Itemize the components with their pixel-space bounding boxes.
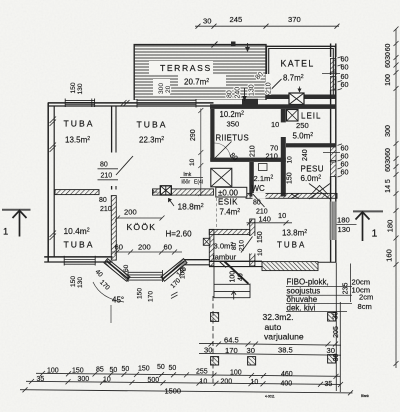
svg-text:50: 50: [157, 364, 165, 371]
svg-text:80: 80: [100, 162, 108, 169]
svg-text:TUBA: TUBA: [64, 119, 95, 129]
svg-text:210: 210: [266, 152, 278, 161]
svg-text:35: 35: [325, 381, 333, 388]
svg-text:TUBA: TUBA: [137, 120, 168, 130]
svg-text:30: 30: [327, 346, 335, 355]
svg-text:PESU: PESU: [301, 165, 324, 174]
svg-text:tambur: tambur: [213, 253, 237, 262]
svg-text:1: 1: [372, 228, 378, 240]
svg-text:50: 50: [110, 367, 118, 374]
svg-text:240: 240: [302, 149, 309, 161]
svg-text:14 5: 14 5: [385, 179, 392, 193]
svg-text:150: 150: [287, 172, 294, 184]
svg-text:200: 200: [138, 243, 151, 252]
svg-text:160: 160: [385, 249, 394, 262]
svg-text:RIIETUS: RIIETUS: [216, 134, 250, 143]
svg-text:130: 130: [338, 225, 351, 234]
svg-text:170: 170: [148, 291, 155, 302]
svg-text:35: 35: [37, 376, 45, 383]
svg-text:2cm: 2cm: [359, 293, 373, 302]
svg-text:130: 130: [249, 84, 256, 96]
svg-text:80: 80: [253, 200, 261, 207]
svg-text:60: 60: [341, 80, 349, 89]
svg-text:10.4m2: 10.4m2: [64, 226, 90, 236]
svg-text:5.0m2: 5.0m2: [293, 132, 314, 141]
svg-text:100: 100: [47, 368, 59, 375]
svg-text:210: 210: [266, 82, 273, 94]
svg-text:60: 60: [341, 63, 349, 72]
svg-text:13.8m2: 13.8m2: [282, 229, 307, 238]
svg-text:245: 245: [230, 15, 243, 24]
svg-text:60: 60: [385, 44, 392, 52]
svg-text:210: 210: [239, 240, 246, 251]
svg-text:300: 300: [385, 125, 392, 137]
svg-text:30: 30: [333, 312, 340, 320]
svg-text:E(4l: E(4l: [194, 180, 203, 186]
svg-text:Blank: Blank: [361, 394, 369, 398]
svg-text:varjualune: varjualune: [264, 332, 304, 342]
svg-text:60: 60: [385, 148, 392, 156]
svg-text:210: 210: [250, 145, 257, 157]
svg-text:150: 150: [72, 368, 84, 375]
svg-text:60: 60: [385, 60, 392, 68]
svg-text:60: 60: [123, 264, 130, 272]
svg-text:8cm: 8cm: [358, 302, 372, 311]
svg-text:KÖÖK: KÖÖK: [127, 222, 157, 232]
svg-text:290: 290: [190, 129, 197, 141]
svg-text:150: 150: [257, 231, 264, 243]
svg-text:10: 10: [189, 158, 196, 166]
svg-text:300: 300: [78, 376, 90, 383]
svg-text:H=2.60: H=2.60: [166, 230, 193, 239]
svg-text:150: 150: [70, 82, 77, 93]
svg-text:210: 210: [101, 173, 113, 180]
svg-text:±0.00: ±0.00: [218, 188, 239, 197]
svg-text:80: 80: [99, 197, 107, 204]
svg-text:20: 20: [165, 85, 172, 93]
svg-text:38.5: 38.5: [278, 346, 293, 355]
svg-text:235: 235: [343, 283, 350, 295]
svg-text:30: 30: [385, 52, 392, 60]
svg-text:8.7m2: 8.7m2: [283, 74, 304, 83]
svg-text:50: 50: [169, 365, 177, 372]
svg-text:1: 1: [3, 227, 8, 238]
svg-text:64.5: 64.5: [224, 336, 239, 345]
svg-text:130: 130: [77, 277, 84, 288]
svg-text:370: 370: [288, 15, 301, 24]
svg-text:30: 30: [247, 346, 255, 355]
svg-text:10: 10: [257, 248, 264, 256]
svg-text:32.3m2.: 32.3m2.: [263, 312, 294, 322]
svg-text:150: 150: [137, 288, 144, 299]
svg-text:205: 205: [333, 326, 340, 338]
svg-text:1500: 1500: [165, 386, 181, 395]
svg-text:60: 60: [341, 168, 349, 177]
svg-text:300: 300: [158, 83, 165, 94]
svg-text:10.2m2: 10.2m2: [220, 110, 245, 119]
svg-text:150: 150: [70, 276, 77, 287]
svg-text:auto: auto: [265, 322, 282, 332]
svg-text:210: 210: [100, 206, 112, 213]
svg-text:30: 30: [385, 156, 392, 164]
svg-text:460: 460: [281, 371, 293, 378]
svg-text:lõõr: lõõr: [182, 180, 191, 186]
svg-text:TUBA: TUBA: [64, 240, 95, 250]
svg-text:180: 180: [337, 216, 350, 225]
svg-text:85: 85: [96, 367, 104, 374]
svg-text:7.4m2: 7.4m2: [220, 208, 241, 217]
svg-text:130: 130: [77, 83, 84, 94]
svg-text:60: 60: [385, 164, 392, 172]
svg-text:WC: WC: [252, 184, 266, 193]
svg-text:80: 80: [231, 242, 238, 250]
svg-text:170: 170: [225, 346, 238, 355]
svg-text:250: 250: [296, 121, 309, 130]
svg-text:4-0011: 4-0011: [265, 395, 275, 399]
svg-text:30: 30: [204, 346, 212, 355]
svg-text:10: 10: [271, 120, 279, 129]
svg-text:20.7m2: 20.7m2: [184, 78, 209, 87]
svg-text:13.5m2: 13.5m2: [65, 136, 90, 145]
svg-text:18.8m2: 18.8m2: [178, 202, 204, 212]
svg-text:200: 200: [124, 208, 137, 217]
svg-text:1=: 1=: [152, 189, 158, 195]
svg-text:30: 30: [333, 354, 340, 362]
svg-text:LEIL: LEIL: [301, 112, 321, 121]
svg-text:100: 100: [230, 271, 237, 283]
svg-text:140: 140: [259, 215, 271, 224]
svg-text:ESIK: ESIK: [218, 198, 238, 207]
svg-text:30: 30: [203, 17, 211, 26]
svg-text:500: 500: [148, 377, 160, 384]
svg-text:100: 100: [230, 369, 242, 376]
svg-text:FIBO-plokk,: FIBO-plokk,: [287, 278, 329, 287]
svg-text:40: 40: [238, 273, 245, 281]
svg-text:50: 50: [122, 366, 130, 373]
svg-text:350: 350: [227, 120, 240, 129]
svg-text:100: 100: [385, 74, 392, 86]
svg-text:400: 400: [281, 381, 293, 388]
svg-text:KATEL: KATEL: [281, 59, 315, 69]
svg-text:240: 240: [235, 87, 242, 99]
svg-text:180: 180: [386, 220, 395, 233]
svg-text:200: 200: [221, 379, 233, 386]
svg-text:10: 10: [278, 211, 286, 220]
svg-text:150: 150: [138, 366, 150, 373]
svg-text:TUBA: TUBA: [277, 241, 306, 250]
svg-text:6.0m2: 6.0m2: [301, 174, 322, 183]
svg-text:255: 255: [196, 369, 208, 376]
svg-text:22.3m2: 22.3m2: [139, 136, 164, 145]
svg-text:TERRASS: TERRASS: [160, 63, 212, 73]
svg-text:10: 10: [287, 156, 294, 164]
svg-text:80: 80: [227, 90, 234, 98]
svg-text:60: 60: [164, 243, 172, 252]
